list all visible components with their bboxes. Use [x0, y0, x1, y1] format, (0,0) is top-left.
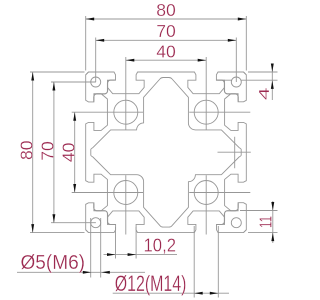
core hole bottom-left [114, 181, 138, 205]
svg-text:40: 40 [156, 41, 176, 61]
corner hole centerlines bottom-left [51, 222, 96, 224]
corner hole centerlines top-right (h-line doubles as ext of dim 4) [216, 38, 278, 83]
svg-text:Ø5(M6): Ø5(M6) [21, 252, 86, 274]
centerlines: vertical slot axes (top/bottom) [125, 57, 127, 130]
core hole top-right [194, 100, 218, 124]
core hole bottom-right [194, 181, 218, 205]
dim 10,2: ext lines from bottom-left slot opening [116, 227, 137, 259]
dim 11 right: dim line [272, 201, 274, 243]
svg-text:4: 4 [257, 87, 273, 100]
dim Ø12(M14): dim line [113, 292, 229, 294]
svg-text:Ø12(M14): Ø12(M14) [115, 271, 187, 296]
centerlines: horizontal slot axes (left/right) [72, 111, 143, 113]
dim Ø5(M6): ext lines from corner hole edges [91, 218, 101, 278]
corner hole centerlines top-left [51, 38, 96, 83]
arrows dim 11 right (outside) [271, 202, 274, 211]
svg-text:11: 11 [255, 216, 275, 228]
svg-text:40: 40 [58, 142, 78, 162]
dim Ø12(M14): ext lines [194, 226, 218, 298]
arrows dim 70 left [52, 82, 55, 91]
svg-text:10,2: 10,2 [144, 236, 177, 256]
svg-text:70: 70 [156, 21, 176, 41]
dim line 80 top [86, 18, 247, 20]
extension lines: left dim 80 [30, 72, 85, 233]
extension lines: top dim 80 [86, 16, 247, 71]
arrows dim 10,2 (both pointing right) [107, 253, 116, 256]
dim 4 right: ext line top edge [248, 71, 278, 73]
svg-text:80: 80 [156, 0, 176, 20]
dim 10,2: dim line [104, 254, 178, 256]
central cross cavity [91, 78, 241, 228]
arrows dim 4 right (outside) [271, 64, 274, 73]
arrows dim 80 left [31, 72, 34, 81]
dim line 70 top [96, 39, 237, 41]
corner hole top-left [91, 77, 101, 87]
svg-text:80: 80 [16, 140, 36, 160]
dim line 70 left [53, 82, 55, 223]
profile outer outline + T-slots: 4 rotated sides [86, 72, 247, 102]
svg-text:70: 70 [38, 141, 58, 161]
arrows dim 40 top [126, 59, 135, 62]
dim Ø5(M6): dim line [17, 271, 145, 273]
dim line 40 top [126, 59, 206, 61]
corner hole bottom-left [91, 218, 101, 228]
corner hole top-right [231, 77, 241, 87]
core hole top-left [114, 100, 138, 124]
dim line 80 left [32, 72, 34, 233]
corner hole bottom-right [231, 218, 241, 228]
dim line 40 left [74, 112, 76, 192]
arrows dim Ø12 (inside pointing outward) [194, 292, 203, 295]
arrows dim 40 left [73, 112, 76, 121]
mid-right side hole centermark [218, 137, 251, 169]
arrows dim 80 top [86, 18, 95, 21]
arrows dim 70 top [96, 39, 105, 42]
dim 11 right: ext lines [240, 211, 278, 233]
dim 4 right: dim line [271, 64, 273, 101]
arrows dim Ø5 (outside) [83, 271, 92, 274]
